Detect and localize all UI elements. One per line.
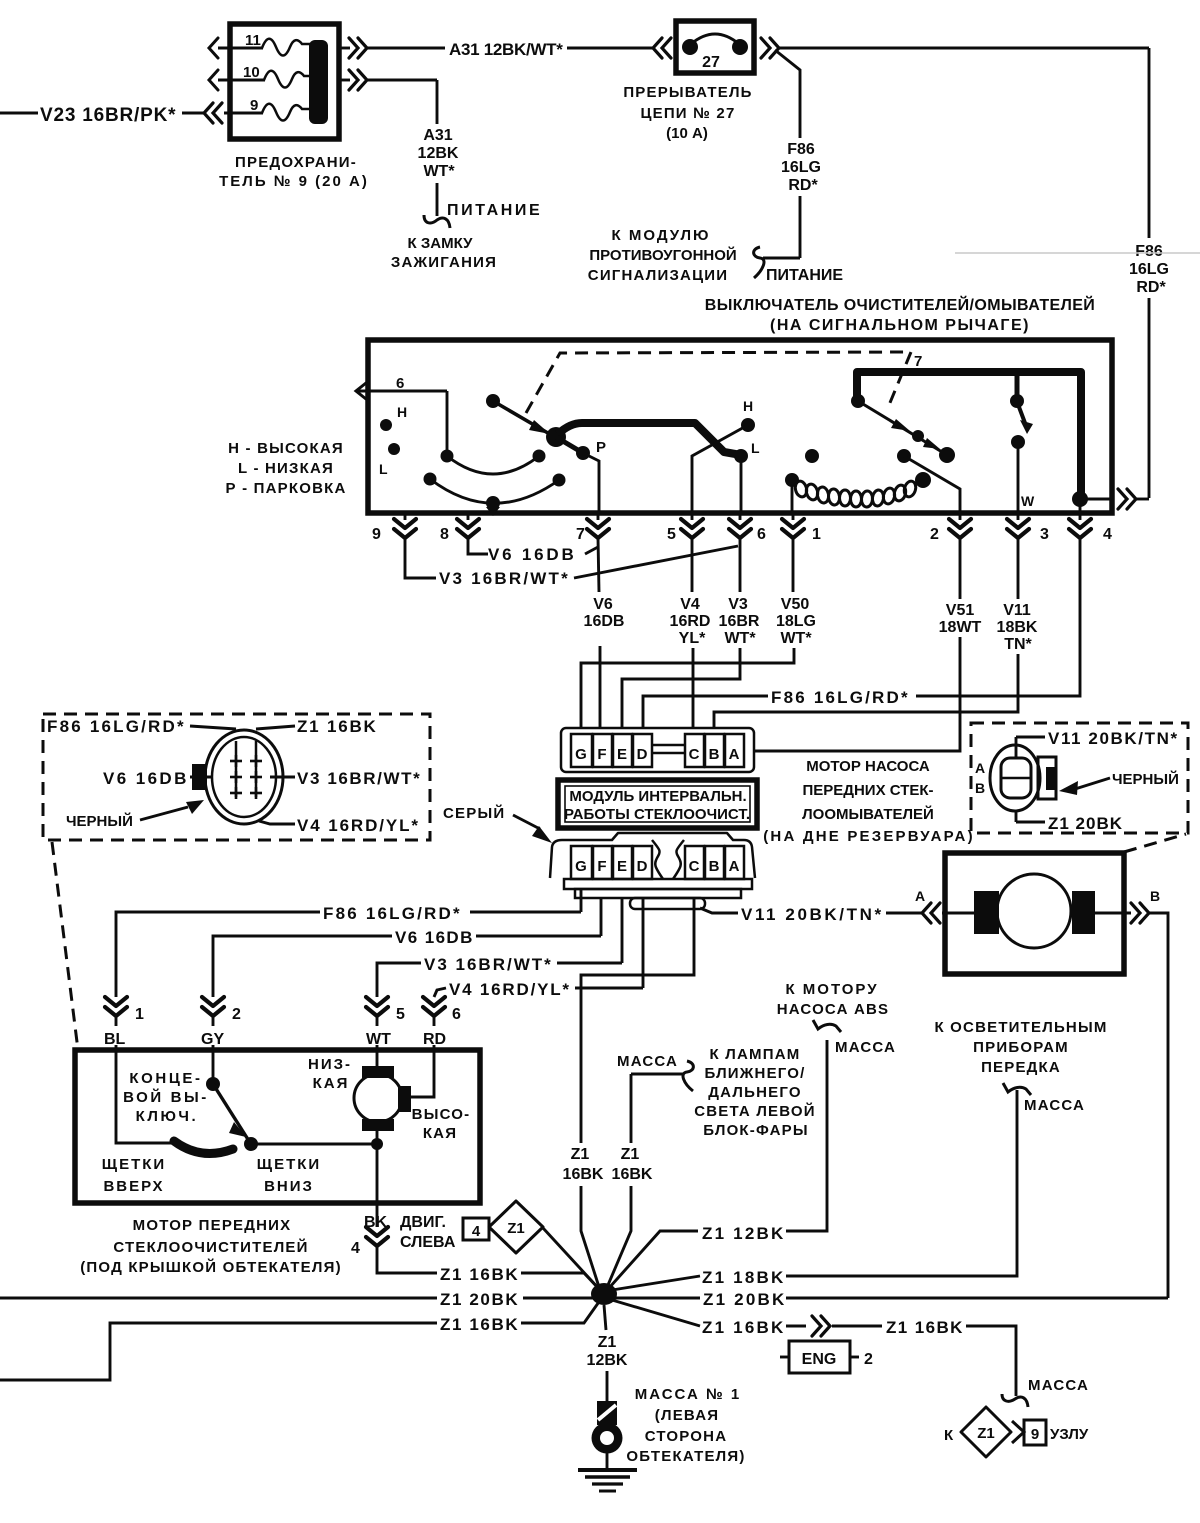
svg-text:F86 16LG/RD*: F86 16LG/RD* <box>323 904 462 923</box>
pin 5 WT connector <box>366 997 388 1016</box>
svg-text:A: A <box>729 858 740 875</box>
W contact with arrow <box>1015 376 1020 398</box>
svg-text:ЛООМЫВАТЕЛЕЙ: ЛООМЫВАТЕЛЕЙ <box>802 805 934 823</box>
pin 2 GY connector <box>202 997 224 1016</box>
wire pin4 down to F86 node <box>916 538 1080 696</box>
svg-text:ПИТАНИЕ: ПИТАНИЕ <box>447 202 542 219</box>
wire node 6 drop <box>446 391 449 452</box>
svg-text:Н - ВЫСОКАЯ: Н - ВЫСОКАЯ <box>228 440 344 457</box>
connector arrows out of breaker <box>761 38 779 58</box>
svg-text:НАСОСА ABS: НАСОСА ABS <box>777 1001 890 1018</box>
svg-text:B: B <box>1150 888 1160 904</box>
continuation hook to ignition switch <box>424 215 450 228</box>
svg-text:WT*: WT* <box>780 630 812 647</box>
svg-text:V50: V50 <box>781 596 810 613</box>
coil end dots <box>785 473 799 487</box>
svg-text:К ЛАМПАМ: К ЛАМПАМ <box>710 1046 801 1063</box>
wire BK to junction Z1 16BK <box>377 1247 437 1273</box>
svg-text:18LG: 18LG <box>776 613 816 630</box>
wiper/washer switch box <box>368 340 1112 513</box>
svg-text:БЛОК-ФАРЫ: БЛОК-ФАРЫ <box>703 1122 809 1139</box>
svg-text:ВНИЗ: ВНИЗ <box>264 1178 314 1195</box>
svg-text:G: G <box>575 746 587 763</box>
svg-text:5: 5 <box>396 1006 405 1023</box>
wire V6 16DB to wiper motor pin2 <box>600 898 603 936</box>
shell pin A cell <box>725 846 744 879</box>
washer motor brush left <box>974 891 999 934</box>
svg-text:ENG: ENG <box>802 1351 837 1368</box>
svg-text:ОБТЕКАТЕЛЯ): ОБТЕКАТЕЛЯ) <box>626 1448 745 1465</box>
svg-text:Z1 20BK: Z1 20BK <box>440 1290 519 1309</box>
wiper hub blob <box>546 427 566 447</box>
svg-text:2: 2 <box>930 526 939 543</box>
shell pin B cell <box>705 846 724 879</box>
svg-text:ВЫСО-: ВЫСО- <box>412 1106 471 1123</box>
connector pin columns <box>235 741 238 797</box>
svg-text:Z1: Z1 <box>621 1146 640 1163</box>
pump connector side tab <box>1038 757 1056 799</box>
wire A31 row 10 to ignition switch <box>339 79 350 82</box>
svg-text:E: E <box>617 858 627 875</box>
svg-text:Z1 16BK: Z1 16BK <box>440 1315 519 1334</box>
wire V11 to pump motor A <box>700 908 738 913</box>
shell stack <box>564 879 752 889</box>
wire Z1 20BK from left edge <box>0 1297 437 1300</box>
wire Z1 12BK to ABS pump ground <box>609 1231 698 1288</box>
wire pin5 down V4 16RD/YL* <box>691 538 694 592</box>
svg-text:9: 9 <box>250 97 258 114</box>
dashed cam outline <box>526 352 911 413</box>
wire fuse row 11 internal <box>218 47 263 50</box>
connector top stub <box>1015 737 1018 757</box>
svg-text:F: F <box>597 858 606 875</box>
svg-text:V51: V51 <box>946 602 975 619</box>
shell pin F cell <box>593 846 612 879</box>
svg-text:ПИТАНИЕ: ПИТАНИЕ <box>766 267 843 284</box>
svg-text:Z1 16BK: Z1 16BK <box>440 1265 519 1284</box>
module connector lower shell <box>550 833 755 878</box>
svg-text:WT: WT <box>366 1031 391 1048</box>
svg-text:V4 16RD/YL*: V4 16RD/YL* <box>297 816 420 835</box>
svg-text:6: 6 <box>757 526 766 543</box>
svg-text:7: 7 <box>576 526 585 543</box>
shell pin E cell <box>613 846 632 879</box>
svg-text:WT*: WT* <box>423 163 455 180</box>
svg-text:КАЯ: КАЯ <box>423 1125 457 1142</box>
svg-text:2: 2 <box>864 1351 873 1368</box>
wire coil top contact to pin 2 <box>897 449 911 463</box>
svg-text:11: 11 <box>245 32 261 49</box>
wire Z1 18BK to front lighting ground <box>612 1276 700 1290</box>
breaker contact dot left <box>682 39 698 55</box>
pin F cell <box>593 734 612 767</box>
svg-text:МАССА: МАССА <box>617 1053 678 1070</box>
svg-text:ПРИБОРАМ: ПРИБОРАМ <box>973 1039 1069 1056</box>
svg-text:ЦЕПИ № 27: ЦЕПИ № 27 <box>640 105 735 122</box>
thick bridge wire P <box>558 423 741 455</box>
svg-text:6: 6 <box>452 1006 461 1023</box>
svg-text:ПРЕРЫВАТЕЛЬ: ПРЕРЫВАТЕЛЬ <box>623 84 752 101</box>
svg-text:ЩЕТКИ: ЩЕТКИ <box>257 1156 321 1173</box>
wire coil left to pin 1 <box>791 480 794 513</box>
svg-text:КЛЮЧ.: КЛЮЧ. <box>136 1108 199 1125</box>
svg-text:A: A <box>729 746 740 763</box>
svg-text:TN*: TN* <box>1004 636 1032 653</box>
wire motor B down right <box>1149 913 1168 1298</box>
svg-text:(ПОД КРЫШКОЙ ОБТЕКАТЕЛЯ): (ПОД КРЫШКОЙ ОБТЕКАТЕЛЯ) <box>80 1258 342 1276</box>
svg-text:F: F <box>597 746 606 763</box>
brushes-down contact dot <box>244 1137 258 1151</box>
svg-text:Z1 16BK: Z1 16BK <box>297 717 378 736</box>
svg-text:F86 16LG/RD*: F86 16LG/RD* <box>771 688 910 707</box>
lower arc bottom contact <box>486 496 500 510</box>
svg-text:МАССА № 1: МАССА № 1 <box>635 1386 741 1403</box>
svg-text:К ОСВЕТИТЕЛЬНЫМ: К ОСВЕТИТЕЛЬНЫМ <box>934 1019 1107 1036</box>
dashed corner lead <box>1124 834 1186 852</box>
splice junction blob <box>591 1283 617 1305</box>
contact H dot left <box>380 419 392 431</box>
faint scan line <box>955 252 1200 254</box>
svg-text:СТОРОНА: СТОРОНА <box>645 1428 727 1445</box>
svg-text:L: L <box>751 440 760 456</box>
svg-text:5: 5 <box>667 526 676 543</box>
svg-text:W: W <box>1021 493 1035 509</box>
svg-text:ДАЛЬНЕГО: ДАЛЬНЕГО <box>708 1084 801 1101</box>
svg-text:МАССА: МАССА <box>1028 1377 1089 1394</box>
svg-text:V11 20BK/TN*: V11 20BK/TN* <box>741 905 884 924</box>
wire V4 16RD/YL* to wiper motor pin6 <box>642 898 645 988</box>
wire F86 16LG/RD* main run to right edge <box>779 47 1149 50</box>
svg-text:МОДУЛЬ ИНТЕРВАЛЬН.: МОДУЛЬ ИНТЕРВАЛЬН. <box>569 788 746 805</box>
wiper arm <box>493 401 553 436</box>
svg-text:ТЕЛЬ № 9 (20 А): ТЕЛЬ № 9 (20 А) <box>219 173 369 190</box>
svg-text:К МОТОРУ: К МОТОРУ <box>785 981 878 998</box>
wire pin6 down V3 16BR/WT* <box>739 538 742 592</box>
svg-text:(10 А): (10 А) <box>666 125 708 142</box>
connector arrows into breaker <box>653 38 671 58</box>
svg-text:16BR: 16BR <box>719 613 760 630</box>
svg-text:Z1: Z1 <box>977 1425 995 1442</box>
svg-text:РАБОТЫ СТЕКЛООЧИСТ.: РАБОТЫ СТЕКЛООЧИСТ. <box>564 806 750 823</box>
washer motor box <box>945 853 1124 974</box>
svg-text:G: G <box>575 858 587 875</box>
wire pin9 to pin6 V3 16BR/WT* link <box>405 538 436 578</box>
svg-text:СТЕКЛООЧИСТИТЕЛЕЙ: СТЕКЛООЧИСТИТЕЛЕЙ <box>113 1238 308 1256</box>
svg-text:WT*: WT* <box>724 630 756 647</box>
svg-text:(НА СИГНАЛЬНОМ РЫЧАГЕ): (НА СИГНАЛЬНОМ РЫЧАГЕ) <box>770 317 1030 334</box>
thick wash cam rail <box>857 372 1081 497</box>
washer motor brush right <box>1072 891 1095 934</box>
svg-text:D: D <box>637 746 648 763</box>
svg-text:A31 12BK/WT*: A31 12BK/WT* <box>449 40 563 59</box>
breaker bimetal arc <box>691 34 739 44</box>
shell keyway <box>652 840 663 879</box>
wiper motor box <box>75 1050 480 1203</box>
svg-text:V3 16BR/WT*: V3 16BR/WT* <box>297 769 421 788</box>
round connector oval <box>205 730 283 824</box>
park contact thick arc <box>174 1141 233 1154</box>
wire Z1 12BK to ground G1 <box>604 1305 606 1330</box>
svg-text:18WT: 18WT <box>939 619 982 636</box>
wire pin2 down V51 18WT <box>959 538 962 599</box>
wire F86 branch to alarm module <box>775 50 800 138</box>
svg-text:27: 27 <box>702 54 720 71</box>
svg-text:К: К <box>944 1427 954 1444</box>
contact L dot left <box>388 443 400 455</box>
brush right <box>398 1086 411 1112</box>
svg-text:УЗЛУ: УЗЛУ <box>1050 1426 1089 1443</box>
svg-text:V4 16RD/YL*: V4 16RD/YL* <box>449 980 571 999</box>
washer motor armature circle <box>997 874 1071 948</box>
svg-text:ПЕРЕДНИХ СТЕК-: ПЕРЕДНИХ СТЕК- <box>802 782 933 799</box>
resistor coil spring <box>794 480 918 508</box>
svg-text:9: 9 <box>1031 1426 1039 1443</box>
svg-text:RD*: RD* <box>788 177 818 194</box>
svg-text:8: 8 <box>440 526 449 543</box>
svg-text:12BK: 12BK <box>418 145 459 162</box>
wire L to pin 6 <box>740 456 743 513</box>
svg-text:16LG: 16LG <box>1129 261 1169 278</box>
svg-text:Z1 20BK: Z1 20BK <box>703 1290 786 1309</box>
svg-text:F86: F86 <box>787 141 815 158</box>
pin 1 BL connector <box>105 997 127 1016</box>
svg-text:Z1 12BK: Z1 12BK <box>702 1224 785 1243</box>
pin C cell <box>685 734 704 767</box>
svg-text:ПЕРЕДКА: ПЕРЕДКА <box>981 1059 1061 1076</box>
shell pin C cell <box>685 846 704 879</box>
limit switch pivot <box>212 1052 215 1082</box>
svg-text:(НА ДНЕ РЕЗЕРВУАРА): (НА ДНЕ РЕЗЕРВУАРА) <box>763 828 975 845</box>
svg-text:16BK: 16BK <box>563 1166 604 1183</box>
limit switch arm <box>213 1084 249 1141</box>
breaker contact dot right <box>732 39 748 55</box>
svg-text:16RD: 16RD <box>670 613 711 630</box>
svg-text:12BK: 12BK <box>587 1352 628 1369</box>
brush top <box>362 1066 394 1078</box>
svg-text:L - НИЗКАЯ: L - НИЗКАЯ <box>238 460 334 477</box>
wire A31 12BK/WT* row 11 to breaker <box>339 47 350 50</box>
wire Z1 16BK from left edge L-shape <box>0 1323 437 1380</box>
wire pin3 down V11 18BK/TN* <box>1017 538 1020 599</box>
svg-text:V6 16DB: V6 16DB <box>103 769 189 788</box>
connector arrow left row 10 <box>209 70 218 90</box>
svg-text:МАССА: МАССА <box>835 1039 896 1056</box>
svg-text:4: 4 <box>472 1223 481 1240</box>
switch upper arc <box>447 456 539 474</box>
svg-text:10: 10 <box>243 64 260 81</box>
svg-text:2: 2 <box>232 1006 241 1023</box>
left connector dashed box <box>43 714 430 840</box>
wire Z1 20BK junction to washer motor B <box>614 1297 700 1300</box>
svg-text:К МОДУЛЮ: К МОДУЛЮ <box>612 227 711 244</box>
svg-text:16DB: 16DB <box>584 613 625 630</box>
svg-text:К ЗАМКУ: К ЗАМКУ <box>408 235 474 252</box>
svg-text:V11: V11 <box>1003 602 1031 619</box>
svg-text:16BK: 16BK <box>612 1166 653 1183</box>
svg-text:Z1 16BK: Z1 16BK <box>886 1318 964 1337</box>
svg-text:СЛЕВА: СЛЕВА <box>400 1234 456 1251</box>
svg-text:D: D <box>637 858 648 875</box>
svg-text:4: 4 <box>351 1240 360 1257</box>
bridge D-C <box>653 744 684 747</box>
svg-text:ВОЙ ВЫ-: ВОЙ ВЫ- <box>123 1088 209 1106</box>
svg-text:H: H <box>397 404 407 420</box>
wiper to P contact <box>556 437 583 453</box>
svg-text:Z1 16BK: Z1 16BK <box>702 1318 785 1337</box>
pin D cell <box>633 734 652 767</box>
wire fuse row 10 internal <box>218 79 265 82</box>
svg-text:E: E <box>617 746 627 763</box>
svg-text:V6 16DB: V6 16DB <box>488 545 577 564</box>
svg-text:C: C <box>689 858 700 875</box>
ground G1 symbol <box>578 1468 637 1472</box>
svg-text:RD*: RD* <box>1136 279 1166 296</box>
wire H to pin 5 <box>692 425 748 513</box>
svg-text:YL*: YL* <box>679 630 706 647</box>
svg-text:ЧЕРНЫЙ: ЧЕРНЫЙ <box>1112 770 1179 788</box>
wire pin6 to right brush <box>411 1052 434 1097</box>
shell pin G cell <box>571 846 592 879</box>
connector bottom stub <box>1015 811 1018 822</box>
svg-text:V3: V3 <box>728 596 748 613</box>
contact H dot right <box>741 418 755 432</box>
ENG connector box <box>780 1356 789 1359</box>
svg-text:V6: V6 <box>593 596 613 613</box>
interval wiper module box <box>558 780 757 828</box>
brush bottom <box>362 1119 394 1131</box>
wire P to pin 7 <box>583 453 599 513</box>
svg-text:Z1: Z1 <box>598 1334 617 1351</box>
svg-text:3: 3 <box>1040 526 1049 543</box>
fuse block Fuse No.9 (20A) body <box>230 24 339 139</box>
wire V23 16BR/PK* to fuse pin 9 <box>0 112 38 115</box>
pin B cell <box>705 734 724 767</box>
wire diamond to junction <box>543 1228 601 1291</box>
pin 6 RD connector <box>423 997 445 1016</box>
wire W to pin 3 <box>1017 442 1020 513</box>
svg-text:B: B <box>975 780 985 796</box>
svg-text:V3 16BR/WT*: V3 16BR/WT* <box>424 955 553 974</box>
connector keyway black tab <box>192 764 207 790</box>
contact L dot right <box>734 449 748 463</box>
wire F86 16LG/RD* to wiper motor pin1 <box>580 889 583 912</box>
washer pump dashed box <box>971 723 1188 833</box>
svg-text:Z1 20BK: Z1 20BK <box>1048 814 1123 833</box>
svg-text:Z1: Z1 <box>507 1220 525 1237</box>
wire pin5 to top brush <box>376 1052 379 1066</box>
svg-text:V23 16BR/PK*: V23 16BR/PK* <box>40 105 176 126</box>
ring terminal <box>597 1401 617 1425</box>
wire Z1 from module C down <box>581 898 694 1143</box>
svg-text:ЗАЖИГАНИЯ: ЗАЖИГАНИЯ <box>391 254 497 271</box>
svg-text:P: P <box>596 439 606 456</box>
wire pin7 down V6 16DB <box>598 538 599 592</box>
svg-text:СВЕТА ЛЕВОЙ: СВЕТА ЛЕВОЙ <box>694 1102 816 1120</box>
svg-text:V3 16BR/WT*: V3 16BR/WT* <box>439 569 570 588</box>
svg-text:1: 1 <box>812 526 821 543</box>
wire motor bottom to BK pin <box>376 1131 379 1203</box>
svg-text:16LG: 16LG <box>781 159 821 176</box>
pin A cell <box>725 734 744 767</box>
pin G cell <box>571 734 592 767</box>
cam follower arm <box>858 401 947 455</box>
svg-text:4: 4 <box>1103 526 1112 543</box>
wire F86 into switch <box>1072 491 1088 507</box>
wiper motor armature <box>354 1074 402 1122</box>
svg-text:НИЗ-: НИЗ- <box>308 1056 352 1073</box>
svg-text:ЧЕРНЫЙ: ЧЕРНЫЙ <box>66 812 133 830</box>
dashed lead to wiper motor <box>52 842 78 1050</box>
svg-text:B: B <box>709 746 720 763</box>
pin E cell <box>613 734 632 767</box>
svg-text:ЩЕТКИ: ЩЕТКИ <box>102 1156 166 1173</box>
washer pump connector oval <box>990 745 1040 811</box>
svg-text:V11 20BK/TN*: V11 20BK/TN* <box>1048 729 1179 748</box>
svg-text:ПРОТИВОУГОННОЙ: ПРОТИВОУГОННОЙ <box>589 246 736 264</box>
engine left splice diamond <box>463 1218 489 1240</box>
svg-text:9: 9 <box>372 526 381 543</box>
svg-text:Z1: Z1 <box>571 1146 590 1163</box>
svg-text:ВВЕРХ: ВВЕРХ <box>103 1178 164 1195</box>
svg-text:F86: F86 <box>1135 243 1163 260</box>
svg-text:СЕРЫЙ: СЕРЫЙ <box>443 804 505 822</box>
svg-text:18BK: 18BK <box>997 619 1038 636</box>
svg-text:ВЫКЛЮЧАТЕЛЬ ОЧИСТИТЕЛЕЙ/ОМЫВАТ: ВЫКЛЮЧАТЕЛЬ ОЧИСТИТЕЛЕЙ/ОМЫВАТЕЛЕЙ <box>705 295 1095 314</box>
wire inside motor <box>1095 912 1131 915</box>
svg-text:A: A <box>915 888 925 904</box>
svg-text:F86 16LG/RD*: F86 16LG/RD* <box>47 717 186 736</box>
module connector upper shell <box>561 728 754 772</box>
connector arrows V23 row <box>204 103 222 123</box>
wire to motor bottom <box>251 1143 377 1146</box>
switch lower arc <box>430 479 559 503</box>
pin cross contacts <box>230 755 262 799</box>
svg-text:КАЯ: КАЯ <box>313 1075 350 1092</box>
svg-text:B: B <box>709 858 720 875</box>
wiper arm pivot contact <box>486 394 500 408</box>
continuation hook to alarm module <box>754 247 764 278</box>
wire Z1 16BK junction to ground node 9 <box>612 1300 700 1326</box>
svg-text:СИГНАЛИЗАЦИИ: СИГНАЛИЗАЦИИ <box>588 267 728 284</box>
svg-text:C: C <box>689 746 700 763</box>
connector arrow left row 11 <box>209 38 218 58</box>
svg-text:V4: V4 <box>680 596 700 613</box>
svg-text:7: 7 <box>914 353 922 370</box>
svg-text:ПРЕДОХРАНИ-: ПРЕДОХРАНИ- <box>235 154 357 171</box>
svg-text:6: 6 <box>396 375 404 392</box>
wire V3 16BR/WT* to wiper motor pin5 <box>621 898 624 963</box>
wire pin1 inside <box>116 1052 176 1143</box>
svg-text:H: H <box>743 398 753 414</box>
svg-text:БЛИЖНЕГО/: БЛИЖНЕГО/ <box>704 1065 805 1082</box>
svg-text:МОТОР НАСОСА: МОТОР НАСОСА <box>806 758 930 775</box>
wire pin4 drop inside <box>1079 499 1082 513</box>
svg-text:МАССА: МАССА <box>1024 1097 1085 1114</box>
shell pin D cell <box>633 846 652 879</box>
fuse bus bar <box>309 40 328 124</box>
circuit breaker No.27 body <box>676 21 754 73</box>
svg-text:L: L <box>379 461 388 477</box>
svg-text:(ЛЕВАЯ: (ЛЕВАЯ <box>655 1407 719 1424</box>
svg-text:A31: A31 <box>423 127 452 144</box>
wire pin1 down V50 18LG/WT* <box>792 538 795 592</box>
svg-text:МОТОР ПЕРЕДНИХ: МОТОР ПЕРЕДНИХ <box>133 1217 292 1234</box>
svg-text:A: A <box>975 760 985 776</box>
svg-text:V6 16DB: V6 16DB <box>395 928 474 947</box>
svg-text:ДВИГ.: ДВИГ. <box>400 1214 446 1231</box>
svg-text:1: 1 <box>135 1006 144 1023</box>
wire pin8 to pin7 V6 16DB link <box>468 538 488 554</box>
